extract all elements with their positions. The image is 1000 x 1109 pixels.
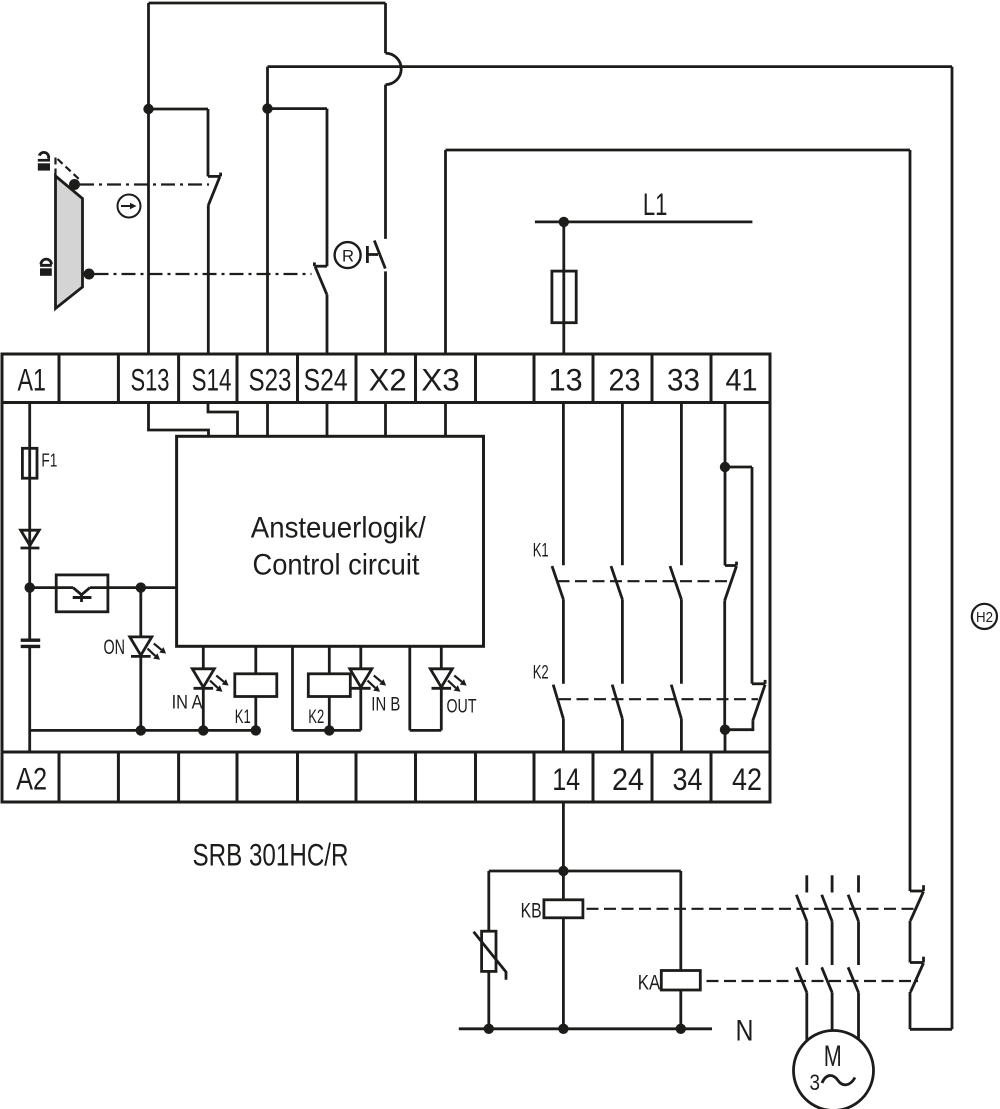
svg-text:41: 41: [726, 362, 758, 398]
svg-text:S24: S24: [304, 362, 348, 398]
svg-text:K1: K1: [533, 541, 549, 562]
svg-text:F1: F1: [41, 451, 57, 471]
svg-text:ON: ON: [104, 636, 126, 659]
svg-text:KB: KB: [521, 900, 542, 923]
svg-text:42: 42: [732, 761, 762, 797]
svg-text:14: 14: [552, 761, 580, 797]
svg-text:X2: X2: [369, 362, 407, 398]
svg-text:S14: S14: [192, 362, 232, 398]
svg-text:K2: K2: [533, 662, 549, 683]
svg-text:L1: L1: [643, 186, 668, 222]
svg-text:23: 23: [609, 362, 641, 398]
svg-text:K2: K2: [308, 707, 324, 728]
svg-text:IN B: IN B: [371, 694, 400, 716]
svg-text:S13: S13: [131, 362, 170, 398]
svg-text:H2: H2: [976, 609, 993, 626]
svg-text:OUT: OUT: [447, 695, 477, 717]
svg-text:A2: A2: [16, 761, 47, 797]
svg-text:IN A: IN A: [172, 692, 203, 714]
svg-text:N: N: [736, 1015, 754, 1048]
svg-text:KA: KA: [638, 972, 661, 995]
svg-text:X3: X3: [421, 362, 460, 398]
svg-text:24: 24: [612, 761, 644, 797]
svg-text:A1: A1: [18, 362, 47, 398]
svg-text:3: 3: [810, 1070, 821, 1095]
svg-text:Ansteuerlogik/: Ansteuerlogik/: [251, 512, 427, 545]
svg-text:M: M: [824, 1040, 842, 1073]
svg-text:SRB 301HC/R: SRB 301HC/R: [193, 837, 349, 873]
svg-text:K1: K1: [235, 707, 251, 728]
svg-text:13: 13: [549, 362, 583, 398]
svg-text:R: R: [342, 246, 354, 265]
svg-text:Control circuit: Control circuit: [253, 549, 421, 582]
svg-text:34: 34: [673, 761, 703, 797]
svg-text:S23: S23: [249, 362, 292, 398]
svg-text:33: 33: [667, 362, 700, 398]
